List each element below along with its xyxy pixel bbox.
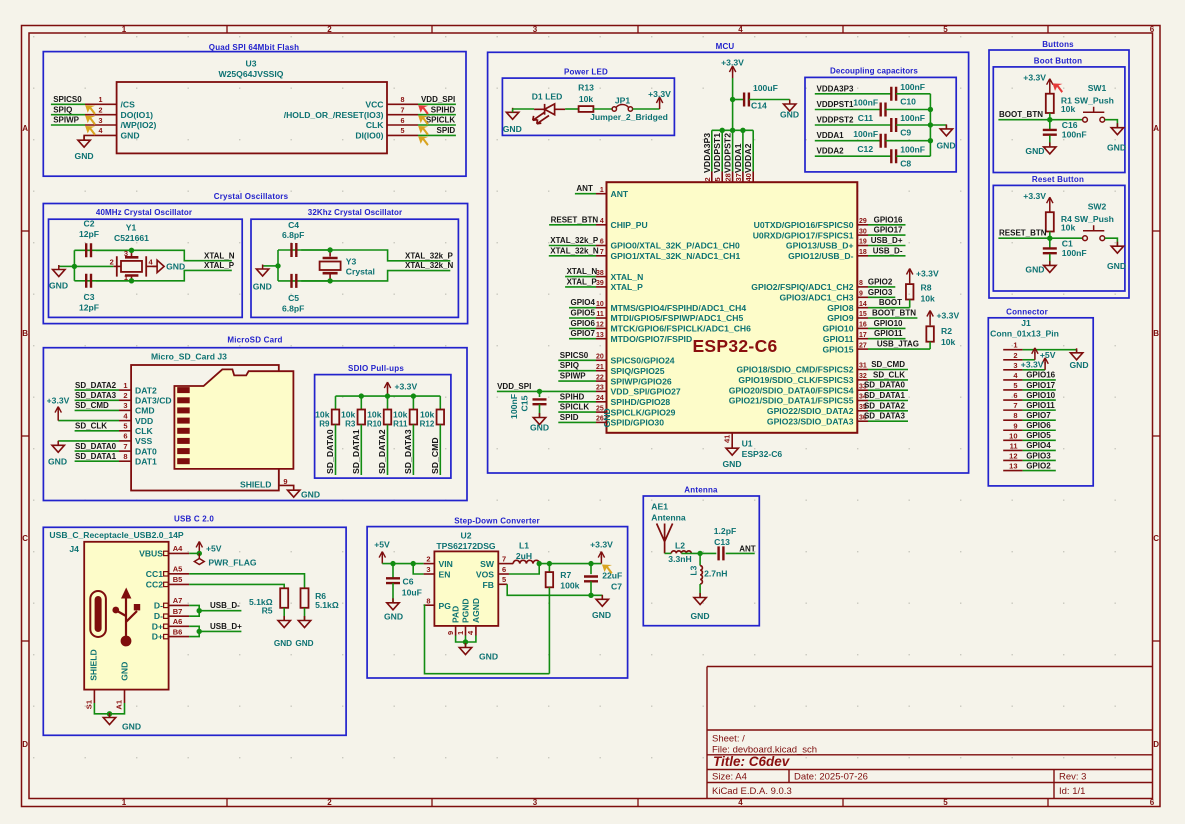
svg-text:EN: EN (439, 569, 451, 579)
svg-text:GND: GND (722, 459, 741, 469)
wire SPIHD (418, 114, 456, 116)
wire U2 ground pins (455, 626, 457, 636)
svg-text:XTAL_32k_P: XTAL_32k_P (550, 236, 599, 245)
microSD pad 7 (177, 448, 190, 454)
svg-text:GND: GND (1107, 261, 1126, 271)
resistor R1 10k (1046, 94, 1054, 113)
svg-text:4: 4 (99, 126, 103, 135)
svg-text:ESP32-C6: ESP32-C6 (692, 336, 777, 356)
svg-text:+3.3V: +3.3V (590, 540, 613, 550)
svg-text:GND: GND (479, 652, 498, 662)
capacitor C3 (86, 274, 91, 288)
svg-text:GND: GND (121, 131, 140, 141)
svg-text:D1 LED: D1 LED (532, 92, 563, 102)
ground microSD VSS (58, 440, 119, 442)
ESP32 pin 22 SPIWP/GPIO26 (596, 380, 607, 382)
power +5V stepdown (381, 556, 383, 564)
svg-text:SPICLK: SPICLK (426, 116, 456, 125)
svg-text:10k: 10k (315, 410, 330, 420)
wire J1 GPIO3 (1023, 459, 1056, 461)
wire SW1 to GND (1105, 120, 1118, 128)
wire VDD_SPI (418, 103, 456, 105)
node crystal Y1 pin3 junction (129, 248, 134, 253)
svg-text:GND: GND (274, 639, 292, 648)
svg-text:GPIO12/USB_D-: GPIO12/USB_D- (788, 251, 854, 261)
svg-text:6: 6 (123, 432, 127, 441)
ESP32 pin 7 GPIO1/XTAL_32K_N/ADC1_CH1 (596, 255, 607, 257)
ground R6 GND (304, 608, 306, 621)
connector J4 body (84, 542, 168, 690)
svg-text:+3.3V: +3.3V (395, 382, 418, 392)
svg-text:GPIO17: GPIO17 (1026, 381, 1055, 390)
svg-text:8: 8 (123, 452, 127, 461)
connector J1 pin 1 (1003, 349, 1022, 351)
wire SPICLK (418, 124, 456, 126)
svg-text:B: B (1153, 329, 1159, 338)
svg-text:SPID: SPID (437, 126, 456, 135)
ESP32 pin 31 GPIO18/SDIO_CMD/FSPICS2 (857, 369, 868, 371)
node EN junction (411, 561, 416, 566)
svg-text:GPIO17: GPIO17 (874, 226, 903, 235)
node SDIO bus junction R11 (411, 393, 416, 398)
node Reset Button junction (1047, 236, 1052, 241)
svg-text:SD_DATA3: SD_DATA3 (403, 429, 413, 474)
svg-text:1: 1 (99, 95, 103, 104)
svg-text:GND: GND (120, 662, 130, 681)
svg-text:GND: GND (530, 423, 549, 433)
microSD pad 5 (177, 428, 190, 434)
wire L3 to GND (699, 584, 701, 598)
svg-text:VBUS: VBUS (139, 548, 163, 558)
svg-text:100nF: 100nF (900, 113, 925, 123)
svg-text:Sheet: /: Sheet: / (712, 734, 745, 745)
svg-text:BOOT_BTN: BOOT_BTN (999, 110, 1043, 119)
svg-text:SPIQ/GPIO25: SPIQ/GPIO25 (611, 366, 665, 376)
svg-text:10uF: 10uF (402, 588, 422, 598)
svg-text:USB_JTAG: USB_JTAG (877, 340, 919, 349)
wire SD_DATA3 (868, 420, 908, 422)
connector J1 pin 7 (1003, 409, 1022, 411)
svg-text:GPIO7: GPIO7 (571, 329, 596, 338)
svg-text:2: 2 (99, 106, 103, 115)
svg-text:CLK: CLK (135, 426, 153, 436)
svg-text:USB_D-: USB_D- (873, 246, 903, 255)
resistor R10 10k (387, 396, 389, 409)
svg-text:10k: 10k (367, 410, 382, 420)
wire USB_D- (189, 605, 199, 616)
capacitor C2 (86, 243, 91, 257)
node C14 junction (730, 97, 735, 102)
section box MicroSD Card (43, 348, 467, 501)
node R7 junction (547, 561, 552, 566)
capacitor C8 100nF (891, 149, 896, 163)
ESP32 pin 8 GPIO2/FSPIQ/ADC1_CH2 (857, 286, 868, 288)
wire decoupling bus to GND (930, 124, 946, 126)
svg-text:RESET_BTN: RESET_BTN (999, 229, 1047, 238)
svg-text:14: 14 (859, 301, 867, 308)
svg-text:XTAL_P: XTAL_P (611, 282, 644, 292)
capacitor C16 100nF (1049, 120, 1051, 130)
svg-text:GPIO6: GPIO6 (571, 319, 596, 328)
svg-text:6: 6 (502, 565, 506, 574)
svg-text:13: 13 (596, 332, 604, 339)
microSD pin 5 CLK (119, 430, 131, 432)
svg-text:U3: U3 (246, 59, 257, 69)
switch SW2 SW_Push (1083, 236, 1088, 241)
svg-text:S1: S1 (85, 700, 94, 709)
svg-text:XTAL_32k_P: XTAL_32k_P (405, 251, 454, 260)
connector J4 pin A4 VBUS (164, 551, 169, 555)
svg-text:VOS: VOS (476, 569, 494, 579)
resistor R7 100k (548, 564, 550, 573)
microSD pin 8 DAT1 (119, 460, 131, 462)
svg-text:GPIO3: GPIO3 (868, 288, 893, 297)
svg-text:SPID: SPID (560, 413, 579, 422)
wire J1 GPIO10 (1023, 399, 1056, 401)
svg-text:C9: C9 (900, 128, 911, 138)
svg-text:SPIWP/GPIO26: SPIWP/GPIO26 (611, 376, 672, 386)
svg-text:5.1kΩ: 5.1kΩ (315, 600, 339, 610)
svg-text:C4: C4 (288, 220, 299, 230)
wire ESP32 pin 5 VDDPST1 (721, 130, 723, 171)
wire SD_DATA0 (868, 389, 908, 391)
power +3.3V Boot Button (1049, 83, 1051, 94)
svg-text:GPIO18/SDIO_CMD/FSPICS2: GPIO18/SDIO_CMD/FSPICS2 (736, 365, 853, 375)
svg-text:A: A (22, 124, 28, 133)
svg-text:L3: L3 (688, 565, 698, 575)
resistor R2 10k pull-up (929, 315, 931, 326)
svg-text:SD_DATA1: SD_DATA1 (351, 429, 361, 474)
wire SD_CMD (75, 409, 119, 411)
wire VDDA1 (815, 140, 881, 142)
svg-text:10k: 10k (420, 410, 435, 420)
section box Step-Down Converter (367, 527, 627, 678)
svg-text:12pF: 12pF (79, 229, 99, 239)
svg-text:SHIELD: SHIELD (89, 649, 99, 681)
svg-text:6: 6 (1013, 391, 1017, 400)
svg-text:7: 7 (1013, 401, 1017, 410)
power +5V J1 pin2 (1023, 359, 1035, 361)
jumper JP1 Jumper_2_Bridged (612, 107, 616, 111)
wire SD_DATA2 (868, 410, 908, 412)
wire EN branch (413, 564, 423, 574)
section box Quad SPI 64Mbit Flash (43, 52, 466, 177)
svg-text:GND: GND (166, 262, 185, 272)
svg-text:37: 37 (734, 173, 743, 181)
svg-text:GPIO13/USB_D+: GPIO13/USB_D+ (786, 241, 854, 251)
svg-text:GND: GND (1025, 146, 1044, 156)
wire SD_DATA1 (868, 400, 908, 402)
svg-text:GPIO21/SDIO_DATA1/FSPICS5: GPIO21/SDIO_DATA1/FSPICS5 (729, 396, 854, 406)
ESP32 pin 35 GPIO22/SDIO_DATA2 (857, 410, 868, 412)
svg-text:Crystal: Crystal (346, 266, 375, 276)
svg-text:Rev: 3: Rev: 3 (1059, 772, 1086, 783)
svg-text:DAT1: DAT1 (135, 456, 157, 466)
svg-text:ANT: ANT (576, 184, 593, 193)
svg-text:Quad SPI 64Mbit Flash: Quad SPI 64Mbit Flash (209, 43, 299, 52)
svg-text:A5: A5 (173, 565, 183, 574)
svg-text:5: 5 (943, 25, 948, 34)
node VDD bus junction VDDA1 (740, 128, 745, 133)
connector J1 pin 3 (1003, 369, 1022, 371)
svg-text:GPIO2: GPIO2 (1026, 461, 1051, 470)
svg-text:MTDO/GPIO7/FSPID: MTDO/GPIO7/FSPID (611, 334, 693, 344)
wire CC2 (189, 584, 284, 588)
svg-text:GPIO9: GPIO9 (827, 313, 853, 323)
ground 40MHz GND (59, 265, 75, 267)
svg-text:6.8pF: 6.8pF (282, 303, 304, 313)
svg-text:B7: B7 (173, 607, 183, 616)
svg-text:CLK: CLK (366, 120, 384, 130)
ERC marker flash SPIHD (418, 116, 429, 126)
svg-text:Boot Button: Boot Button (1034, 56, 1082, 65)
svg-text:SD_DATA1: SD_DATA1 (864, 391, 906, 400)
svg-text:L1: L1 (519, 541, 529, 551)
svg-text:Micro_SD_Card J3: Micro_SD_Card J3 (151, 352, 227, 362)
svg-text:4: 4 (738, 798, 743, 807)
svg-text:1: 1 (122, 798, 127, 807)
svg-text:SPIWP: SPIWP (53, 116, 79, 125)
svg-text:L2: L2 (675, 540, 685, 550)
svg-text:AGND: AGND (471, 598, 481, 623)
ESP32 pin 26 SPID/GPIO30 (596, 421, 607, 423)
wire SD_DATA2 pulldown (387, 425, 389, 476)
wire C13 to ANT (726, 552, 755, 554)
svg-text:3: 3 (124, 249, 128, 258)
ground U1 GND (726, 444, 738, 456)
svg-text:5: 5 (401, 126, 405, 135)
node antenna junction (697, 551, 702, 556)
svg-text:TPS62172DSG: TPS62172DSG (436, 541, 496, 551)
svg-text:27: 27 (859, 342, 867, 349)
ERC marker flash SPIWP (85, 126, 96, 136)
wire SPIQ (51, 114, 85, 116)
svg-text:+5V: +5V (1040, 350, 1056, 360)
svg-text:GND: GND (780, 110, 799, 120)
svg-text:CC2: CC2 (146, 579, 163, 589)
svg-text:U0RXD/GPIO17/FSPICS1: U0RXD/GPIO17/FSPICS1 (753, 230, 854, 240)
svg-text:2: 2 (703, 177, 712, 181)
svg-text:26: 26 (596, 416, 604, 423)
svg-text:C11: C11 (858, 113, 874, 123)
section box SDIO Pull-ups (315, 375, 451, 479)
flash pin 1 /CS (85, 103, 117, 105)
wire GND to LED (513, 108, 535, 110)
connector J1 pin 10 (1003, 439, 1022, 441)
svg-text:C3: C3 (84, 292, 95, 302)
svg-text:10k: 10k (921, 294, 936, 304)
svg-text:R12: R12 (420, 420, 435, 429)
resistor R13 10k (horizontal) (579, 106, 594, 112)
wire USB_D+ (868, 245, 906, 247)
svg-text:SD_DATA0: SD_DATA0 (75, 442, 117, 451)
svg-text:VDD_SPI/GPIO27: VDD_SPI/GPIO27 (611, 387, 681, 397)
connector J1 pin 4 (1003, 379, 1022, 381)
svg-text:VDD_SPI: VDD_SPI (497, 382, 531, 391)
wire 32k rails (277, 250, 279, 281)
svg-text:XTAL_N: XTAL_N (611, 272, 644, 282)
svg-text:7: 7 (502, 555, 506, 564)
node VDD bus junction VDDPST1 (720, 128, 725, 133)
svg-text:A4: A4 (173, 544, 183, 553)
svg-text:XTAL_N: XTAL_N (567, 267, 598, 276)
svg-text:Y1: Y1 (126, 223, 137, 233)
microSD pin 1 DAT2 (119, 389, 131, 391)
svg-text:C8: C8 (900, 159, 911, 169)
antenna AE1 symbol (657, 524, 673, 554)
svg-text:PG: PG (439, 601, 452, 611)
ERC marker Boot Button +3.3V (1053, 83, 1064, 93)
node crystal Y1 pin1 junction (129, 278, 134, 283)
svg-text:/CS: /CS (121, 100, 136, 110)
svg-text:GPIO6: GPIO6 (1026, 421, 1051, 430)
ground microSD SHIELD GND (288, 486, 300, 498)
wire XTAL_N top rail (74, 250, 231, 260)
svg-text:SPIWP: SPIWP (560, 372, 586, 381)
wire GPIO16 (868, 224, 906, 226)
svg-text:GND: GND (301, 490, 320, 500)
microSD pin 4 VDD (119, 420, 131, 422)
svg-text:C6: C6 (403, 577, 414, 587)
wire SD_CLK (868, 379, 908, 381)
svg-text:SD_CMD: SD_CMD (75, 401, 109, 410)
svg-text:GPIO3/ADC1_CH3: GPIO3/ADC1_CH3 (779, 293, 853, 303)
ERC marker flash SPID (418, 136, 429, 146)
ESP32 pin 10 MTMS/GPIO4/FSPIHD/ADC1_CH4 (596, 307, 607, 309)
svg-text:+3.3V: +3.3V (47, 396, 70, 406)
svg-text:PGND: PGND (461, 598, 471, 623)
wire ESP32 pin 2 VDDA3P3 (711, 130, 713, 171)
ground C16 GND (1044, 142, 1056, 154)
svg-text:VDDPST1: VDDPST1 (817, 100, 854, 109)
resistor R9 10k (335, 396, 337, 409)
svg-text:RESET_BTN: RESET_BTN (551, 215, 599, 224)
svg-text:Antenna: Antenna (651, 512, 686, 522)
ESP32 pin 1 ANT (596, 193, 607, 195)
svg-text:Reset Button: Reset Button (1032, 175, 1084, 184)
section box Boot Button (993, 67, 1125, 173)
svg-text:9: 9 (859, 291, 863, 298)
svg-text:8: 8 (1013, 411, 1017, 420)
svg-text:6: 6 (401, 116, 405, 125)
svg-text:USB_C_Receptacle_USB2.0_14P: USB_C_Receptacle_USB2.0_14P (49, 530, 183, 540)
svg-text:12pF: 12pF (79, 303, 99, 313)
wire BOOT_BTN (868, 317, 917, 319)
svg-text:JP1: JP1 (615, 95, 631, 105)
wire XTAL_32k_N (549, 255, 596, 257)
capacitor C10 100nF (891, 87, 896, 101)
wire SDIO +3.3V bus (336, 395, 441, 397)
node SDIO bus junction R3 (359, 393, 364, 398)
wire antenna to L2 (665, 552, 672, 554)
ESP32 pin 20 SPICS0/GPIO24 (596, 359, 607, 361)
svg-text:6: 6 (600, 239, 604, 246)
connector J1 pin 11 (1003, 449, 1022, 451)
wire VDD_SPI (497, 390, 596, 392)
ESP32 pin 11 MTDI/GPIO5/FSPIWP/ADC1_CH5 (596, 317, 607, 319)
svg-text:VDDA2: VDDA2 (743, 143, 753, 173)
svg-text:R2: R2 (941, 326, 952, 336)
capacitor C13 1.2pF (719, 546, 724, 560)
svg-text:GND: GND (592, 610, 611, 620)
wire BOOT_BTN (998, 119, 1082, 121)
svg-text:A: A (1153, 124, 1159, 133)
svg-text:SPIQ: SPIQ (560, 361, 579, 370)
wire USB_D+ (189, 626, 199, 636)
svg-text:DO(IO1): DO(IO1) (121, 110, 154, 120)
wire L2 to C13 (681, 552, 716, 554)
svg-text:2.7nH: 2.7nH (704, 569, 727, 579)
ERC marker flash VCC (418, 105, 429, 115)
section box Buttons (989, 50, 1129, 298)
svg-text:USB_D-: USB_D- (210, 601, 240, 610)
svg-text:1: 1 (124, 273, 128, 282)
svg-text:100nF: 100nF (900, 144, 925, 154)
svg-text:+3.3V: +3.3V (1021, 360, 1044, 370)
ESP32 pin 27 GPIO15 (857, 348, 868, 350)
svg-text:GPIO2: GPIO2 (868, 277, 893, 286)
svg-text:40: 40 (744, 173, 753, 181)
svg-text:3: 3 (1013, 361, 1017, 370)
svg-text:SDIO Pull-ups: SDIO Pull-ups (348, 364, 404, 373)
connector J4 pin B5 CC2 (164, 582, 169, 586)
svg-text:8: 8 (859, 280, 863, 287)
svg-text:40MHz Crystal Oscillator: 40MHz Crystal Oscillator (96, 208, 192, 217)
svg-text:10k: 10k (1061, 104, 1076, 114)
svg-text:B6: B6 (173, 627, 183, 636)
power +3.3V microSD VDD (58, 420, 119, 422)
USB trident icon (116, 594, 138, 640)
section box 32Khz Crystal Oscillator (251, 219, 458, 317)
svg-text:VDDPST2: VDDPST2 (817, 116, 854, 125)
svg-text:100k: 100k (560, 581, 579, 591)
svg-text:VDD: VDD (135, 416, 153, 426)
wire SD_DATA2 (75, 389, 119, 391)
svg-text:GPIO3: GPIO3 (1026, 451, 1051, 460)
wire FB branch (498, 583, 507, 585)
connector J4 pin A6 D+ (164, 624, 169, 628)
svg-text:XTAL_P: XTAL_P (567, 277, 598, 286)
wire +3.3V down to bus (732, 78, 734, 130)
wire SD_DATA0 pulldown (335, 425, 337, 476)
wire SD_CMD (868, 369, 908, 371)
svg-text:SHIELD: SHIELD (240, 480, 272, 490)
svg-text:SPICLK/GPIO29: SPICLK/GPIO29 (611, 407, 676, 417)
ESP32 pin 23 VDD_SPI/GPIO27 (596, 390, 607, 392)
svg-text:SD_DATA2: SD_DATA2 (864, 401, 906, 410)
svg-text:+3.3V: +3.3V (648, 89, 671, 99)
microSD pad 8 (177, 458, 190, 464)
svg-text:9: 9 (446, 631, 455, 635)
svg-text:SD_DATA1: SD_DATA1 (75, 452, 117, 461)
resistor R4 10k (1046, 212, 1054, 231)
svg-text:BOOT: BOOT (879, 298, 902, 307)
svg-text:5: 5 (713, 177, 722, 181)
svg-text:PWR_FLAG: PWR_FLAG (208, 558, 257, 568)
power +3.3V Reset Button (1049, 201, 1051, 212)
node 32k left junction (275, 263, 280, 268)
svg-text:10: 10 (596, 301, 604, 308)
wire GPIO6 (569, 327, 596, 329)
svg-text:SPICS0/GPIO24: SPICS0/GPIO24 (611, 356, 675, 366)
wire LED to R13 (565, 108, 579, 110)
svg-text:VDDA1: VDDA1 (817, 131, 845, 140)
node decoupling bus junction (928, 138, 933, 143)
node Y3 bottom junction (327, 278, 332, 283)
svg-text:GPIO15: GPIO15 (822, 344, 853, 354)
wire ANT (575, 193, 596, 195)
svg-text:R9: R9 (319, 420, 330, 429)
